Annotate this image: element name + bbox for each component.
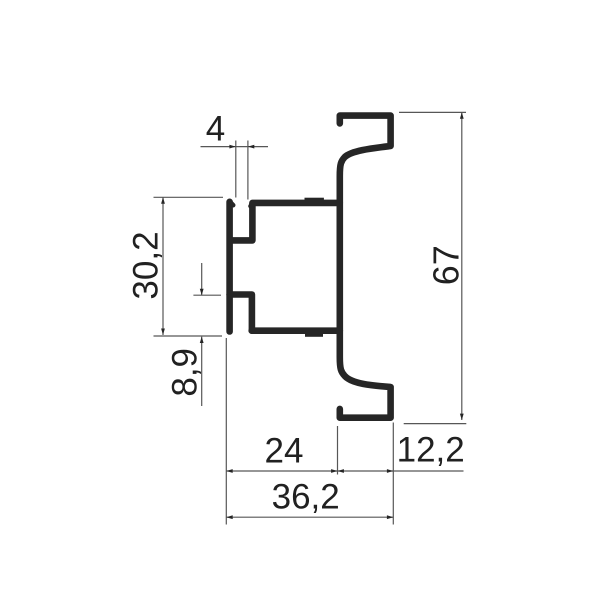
svg-text:12,2: 12,2 (397, 431, 465, 470)
slot right wall top lip (250, 203, 252, 206)
profile box bottom horizontal (252, 327, 340, 334)
svg-text:67: 67 (426, 245, 467, 285)
dimension 8,9: upper line + down arrow (201, 263, 203, 295)
dimension 24: arrows (226, 469, 232, 473)
dimension 4: extension lines (236, 141, 248, 200)
svg-text:4: 4 (206, 109, 225, 148)
dimension 36,2: arrows (226, 515, 232, 519)
dimension 12,2: arrows (338, 469, 344, 473)
dimension 4: arrows (229, 145, 235, 149)
left bar top lip (231, 202, 234, 205)
top rib on box (305, 198, 324, 204)
dimension 67: arrows (460, 112, 464, 118)
dimension 36,2: dim line (226, 516, 393, 518)
profile middle notch (230, 295, 252, 331)
dimension 67: dim line (461, 112, 463, 420)
bottom rib on box (305, 330, 323, 337)
dimension 24 / 12,2: dim line (226, 470, 463, 472)
dimension 8,9: tick (193, 294, 221, 296)
profile outline: top hook, right wall, bottom hook (340, 116, 391, 418)
dimension 30,2: dim line (162, 197, 164, 335)
dimension 67: ticks (399, 112, 466, 423)
bottom extension lines (226, 338, 393, 525)
profile left bar (capsule) (226, 202, 233, 332)
profile box top horizontal + glazing slot right wall + slot bottom (230, 203, 340, 241)
svg-text:30,2: 30,2 (126, 231, 165, 299)
svg-text:8,9: 8,9 (165, 348, 204, 397)
svg-text:24: 24 (265, 432, 304, 471)
dimension 8,9: lower line + up arrow (201, 337, 203, 406)
dimension 30,2: ticks (154, 197, 224, 336)
dimension 4: dim line (201, 146, 269, 148)
dimension 30,2: arrows (161, 197, 165, 203)
svg-text:36,2: 36,2 (272, 478, 340, 517)
